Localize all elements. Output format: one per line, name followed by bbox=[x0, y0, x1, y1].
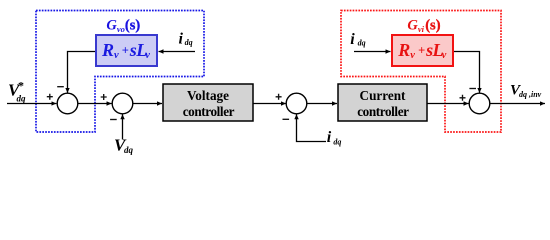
svg-text:v: v bbox=[410, 50, 415, 61]
svg-text:dq: dq bbox=[358, 38, 366, 47]
svg-text:R: R bbox=[101, 40, 114, 60]
svg-text:i: i bbox=[350, 31, 355, 48]
svg-text:v: v bbox=[442, 50, 447, 61]
svg-text:*: * bbox=[18, 79, 24, 93]
svg-text:dq: dq bbox=[185, 38, 193, 47]
svg-text:i: i bbox=[179, 31, 184, 48]
svg-text:Voltage: Voltage bbox=[187, 88, 229, 103]
svg-text:R: R bbox=[397, 40, 410, 60]
svg-text:i: i bbox=[327, 129, 332, 146]
svg-text:dq: dq bbox=[124, 145, 134, 155]
svg-text:Current: Current bbox=[360, 88, 407, 103]
svg-text:v: v bbox=[114, 50, 119, 61]
svg-text:dq: dq bbox=[17, 94, 27, 104]
svg-text:+: + bbox=[122, 43, 129, 57]
svg-text:controller: controller bbox=[357, 104, 409, 119]
svg-text:dq ,inv: dq ,inv bbox=[519, 90, 542, 99]
svg-text:controller: controller bbox=[183, 104, 235, 119]
svg-text:dq: dq bbox=[333, 137, 341, 146]
svg-text:+: + bbox=[418, 43, 425, 57]
svg-text:v: v bbox=[145, 50, 150, 61]
